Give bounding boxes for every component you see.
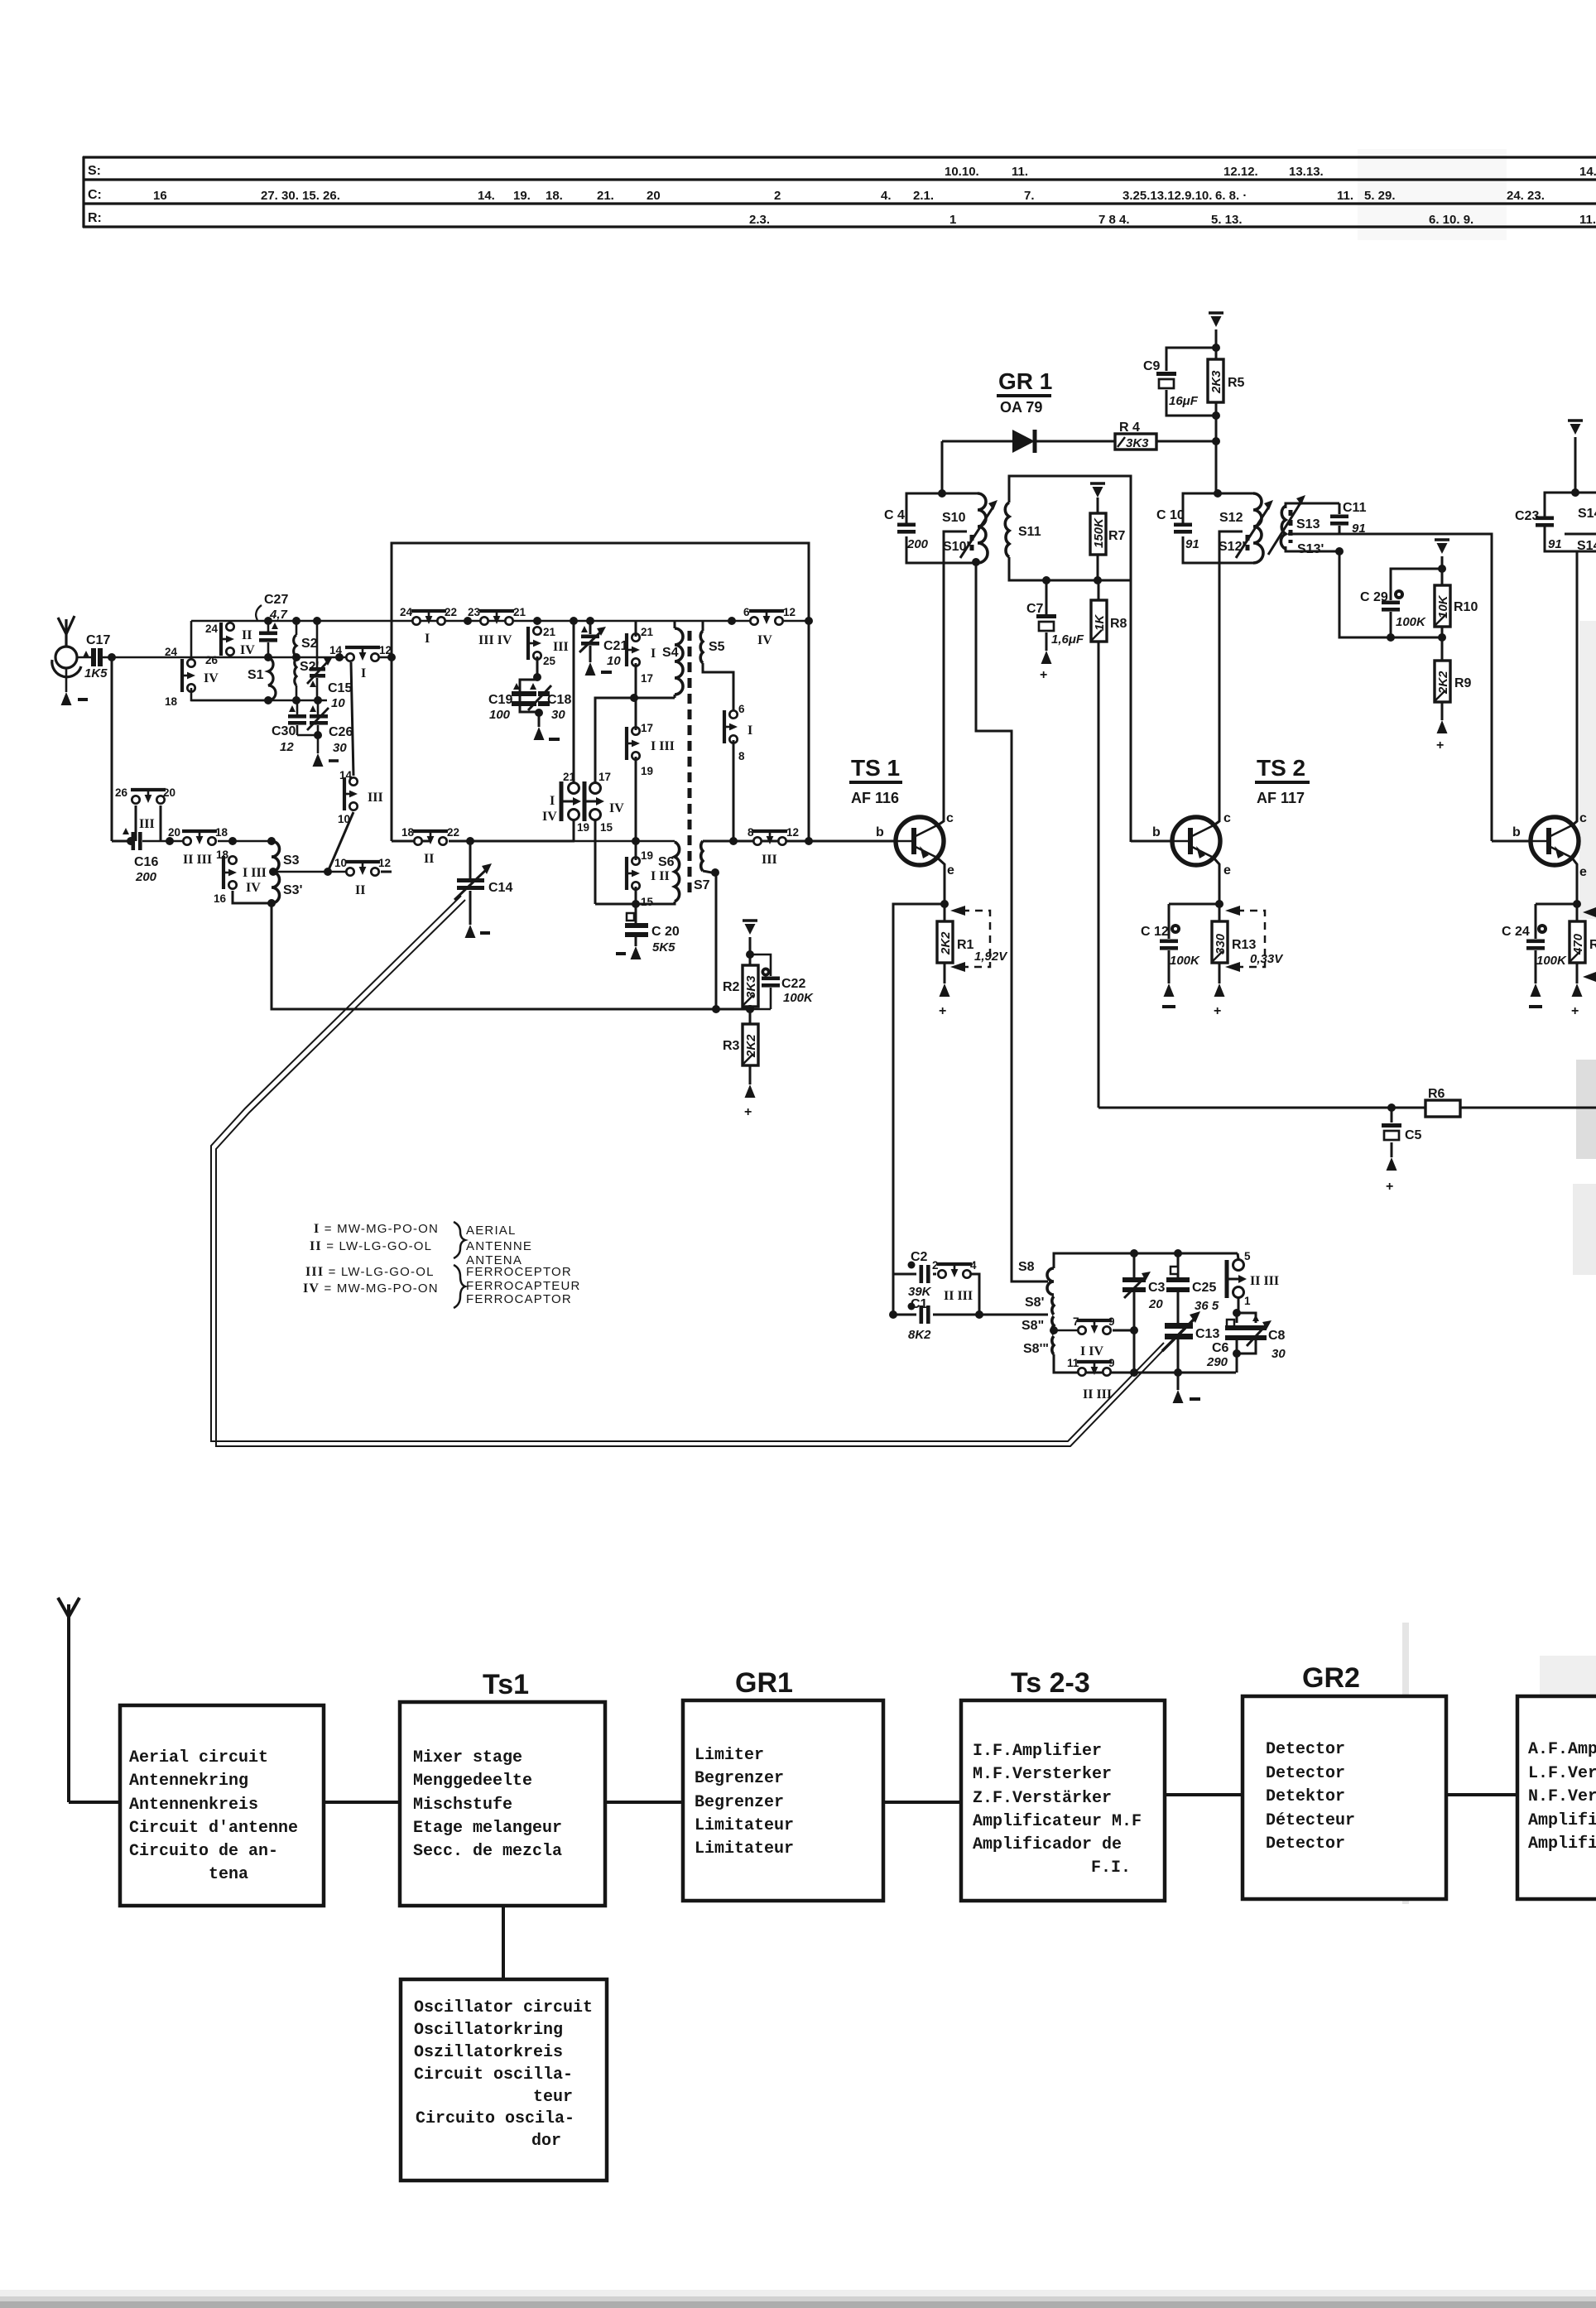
svg-text:OA 79: OA 79 <box>1000 399 1042 416</box>
svg-text:1K5: 1K5 <box>84 666 108 680</box>
svg-text:8: 8 <box>748 826 754 839</box>
svg-text:200: 200 <box>906 537 929 551</box>
svg-text:+: + <box>1214 1004 1221 1018</box>
wire TS1 base rail <box>703 840 897 843</box>
svg-text:21.: 21. <box>597 189 614 203</box>
svg-text:S14: S14 <box>1578 507 1596 521</box>
flow connector <box>883 1801 961 1804</box>
svg-text:18: 18 <box>401 826 415 839</box>
svg-text:Amplifi: Amplifi <box>1528 1811 1596 1830</box>
switch 17-I III-19 <box>627 727 640 760</box>
wire oscillator top rail switches <box>464 617 472 625</box>
scan noise <box>0 2296 1596 2308</box>
tuning gang link (double line) <box>211 896 1167 1446</box>
svg-text:17: 17 <box>598 771 611 783</box>
wire R4 node to C10 tank <box>1215 441 1218 493</box>
wire 4 contact down to C1 line <box>971 1274 979 1315</box>
svg-text:I IV: I IV <box>1080 1344 1103 1358</box>
capacitor C22 <box>762 968 771 977</box>
wire TS1 collector <box>936 818 944 826</box>
svg-text:Etage melangeur: Etage melangeur <box>413 1819 562 1838</box>
svg-text:IV: IV <box>757 633 772 647</box>
svg-text:4.: 4. <box>881 189 892 203</box>
svg-text:100: 100 <box>489 708 511 722</box>
capacitor C26 (trimmer) <box>317 700 320 714</box>
svg-text:Detector: Detector <box>1266 1764 1345 1783</box>
ground below C14 <box>465 925 476 938</box>
switch 21-III-25 <box>528 627 541 660</box>
svg-text:3K3: 3K3 <box>744 975 758 998</box>
svg-text:7.: 7. <box>1024 189 1035 203</box>
resistor R1 <box>937 921 953 963</box>
oscillator coil box <box>1054 1253 1238 1268</box>
wire 16 contact to S3' bottom <box>233 891 272 903</box>
flow box Oscillator circuit <box>401 1979 607 2181</box>
svg-text:I III: I III <box>651 739 675 753</box>
svg-text:Detector: Detector <box>1266 1834 1345 1854</box>
svg-text:200: 200 <box>135 870 157 884</box>
plus terminal below R3 <box>749 1065 752 1084</box>
transistor TS1 AF116 <box>896 817 944 865</box>
capacitor C7 <box>1046 580 1048 614</box>
svg-text:2: 2 <box>932 1259 939 1272</box>
svg-text:S3: S3 <box>283 853 300 868</box>
svg-text:Amplifi: Amplifi <box>1528 1834 1596 1854</box>
supply minus above R7 <box>1090 483 1105 498</box>
svg-text:R3: R3 <box>723 1039 740 1053</box>
svg-text:1: 1 <box>949 213 956 227</box>
svg-text:S8: S8 <box>1018 1260 1035 1274</box>
svg-text:R2: R2 <box>723 980 740 994</box>
svg-text:L.F.Ver: L.F.Ver <box>1528 1764 1596 1783</box>
wire C29 top branch <box>1391 569 1442 600</box>
svg-text:I: I <box>651 647 656 661</box>
svg-text:C15: C15 <box>328 681 352 695</box>
svg-text:21: 21 <box>563 771 576 783</box>
svg-text:S12: S12 <box>1219 511 1243 525</box>
svg-text:Ts1: Ts1 <box>483 1669 529 1700</box>
wire C22 top branch <box>750 954 771 976</box>
capacitor C30 <box>296 700 299 714</box>
svg-text:20: 20 <box>647 189 661 203</box>
wire 17 contact up to S4 bottom <box>595 698 634 783</box>
svg-text:2: 2 <box>774 189 781 203</box>
svg-text:A.F.Amp: A.F.Amp <box>1528 1740 1596 1759</box>
switch 6-I-8 <box>724 710 738 743</box>
svg-text:11.: 11. <box>1012 165 1028 179</box>
svg-text:S1: S1 <box>248 668 264 682</box>
switch 18-I III IV-16 <box>224 856 237 889</box>
svg-text:13.13.: 13.13. <box>1289 165 1324 179</box>
svg-text:C19: C19 <box>488 693 512 707</box>
transformer core S4/S5 dashed <box>688 631 692 892</box>
flow box Mixer stage <box>400 1702 605 1906</box>
flow connector <box>1446 1793 1517 1796</box>
svg-text:dor: dor <box>531 2132 561 2151</box>
coil S11 <box>1005 502 1009 557</box>
svg-text:S3': S3' <box>283 883 302 897</box>
svg-text:Circuit oscilla-: Circuit oscilla- <box>414 2065 573 2084</box>
svg-text:30: 30 <box>333 741 347 755</box>
svg-text:18: 18 <box>165 695 178 708</box>
svg-text:C8: C8 <box>1268 1329 1286 1343</box>
svg-text:26: 26 <box>205 654 219 666</box>
supply minus above R2 <box>743 921 757 935</box>
svg-text:N.F.Ver: N.F.Ver <box>1528 1787 1596 1806</box>
svg-text:C11: C11 <box>1343 501 1367 515</box>
svg-text:4: 4 <box>970 1259 977 1272</box>
flow box IF amplifier <box>961 1700 1165 1901</box>
svg-text:III: III <box>368 791 383 805</box>
wire emitter node to C2/C1 branch <box>893 904 945 1315</box>
svg-text:6. 10. 9.: 6. 10. 9. <box>1429 213 1473 227</box>
svg-text:b: b <box>1152 825 1161 839</box>
wire rail to double switch pole 21 <box>573 621 575 783</box>
svg-text:11: 11 <box>1067 1357 1079 1369</box>
flow connector to oscillator <box>502 1906 505 1981</box>
flow connector <box>324 1801 400 1804</box>
svg-text:100K: 100K <box>783 991 814 1005</box>
ground below C30/C26 <box>297 734 318 737</box>
svg-text:Mischstufe: Mischstufe <box>413 1796 512 1815</box>
supply minus above R5 <box>1209 313 1223 327</box>
C4/S10 IF tank box <box>906 493 978 527</box>
svg-text:I.F.Amplifier: I.F.Amplifier <box>973 1742 1102 1761</box>
wire supply to R5/C9 node <box>1215 329 1218 359</box>
svg-text:100K: 100K <box>1396 615 1426 629</box>
switch 20-II III-18 <box>182 831 217 845</box>
svg-text:14.: 14. <box>1579 165 1596 179</box>
svg-text:Détecteur: Détecteur <box>1266 1811 1355 1830</box>
plus terminal below R9 <box>1441 702 1444 720</box>
svg-text:3K3: 3K3 <box>1126 436 1149 450</box>
oscillator section box <box>392 543 809 841</box>
svg-text:+: + <box>939 1004 946 1018</box>
svg-text:19.: 19. <box>513 189 531 203</box>
svg-text:8K2: 8K2 <box>908 1328 931 1342</box>
svg-text:Circuit d'antenne: Circuit d'antenne <box>129 1819 298 1838</box>
svg-text:C25: C25 <box>1192 1281 1216 1295</box>
flow box Detector <box>1243 1696 1446 1899</box>
wire S7 bottom to bottom rail <box>703 871 716 1009</box>
resistor R8 <box>1098 580 1100 600</box>
ground below tuning block <box>1177 1373 1180 1390</box>
svg-text:III: III <box>553 640 569 654</box>
wire S10' bottom to oscillator S8 coil <box>976 563 1048 1281</box>
resistor R13 <box>1212 921 1228 963</box>
plus terminal below C7 <box>1041 651 1052 664</box>
svg-text:II = LW-LG-GO-OL: II = LW-LG-GO-OL <box>310 1239 432 1253</box>
svg-text:GR 1: GR 1 <box>998 368 1052 394</box>
svg-text:C13: C13 <box>1195 1327 1219 1341</box>
svg-text:7: 7 <box>1073 1315 1079 1328</box>
svg-text:IV: IV <box>240 643 255 657</box>
svg-text:FERROCAPTEUR: FERROCAPTEUR <box>466 1279 581 1293</box>
wire emitter node to C12 <box>1169 903 1219 906</box>
supply minus above R10 <box>1435 540 1449 554</box>
svg-text:AERIAL: AERIAL <box>466 1224 517 1238</box>
svg-text:R1: R1 <box>957 938 974 952</box>
svg-text:c: c <box>946 811 954 825</box>
svg-text:II: II <box>355 883 365 897</box>
switch 24-IV-18 <box>182 659 195 692</box>
svg-text:14: 14 <box>339 769 353 781</box>
svg-text:IV = MW-MG-PO-ON: IV = MW-MG-PO-ON <box>303 1281 439 1296</box>
coil S8 (4 sections) <box>1047 1268 1054 1295</box>
svg-text:27. 30. 15. 26.: 27. 30. 15. 26. <box>261 189 340 203</box>
wire aerial down to C16 <box>111 657 113 841</box>
wire oscillator rail right section <box>675 620 750 623</box>
svg-text:b: b <box>1512 825 1521 839</box>
svg-text:16μF: 16μF <box>1169 394 1199 408</box>
resistor R7 <box>1090 513 1106 555</box>
switch 26-III-20 (bypass above C16) <box>131 790 166 804</box>
coil S5 <box>702 621 704 631</box>
svg-text:C26: C26 <box>329 725 353 739</box>
svg-text:10: 10 <box>334 857 347 869</box>
svg-text:+: + <box>1040 668 1047 682</box>
coil S6 <box>674 841 676 842</box>
svg-text:TS 2: TS 2 <box>1257 755 1305 781</box>
wire 25 contact to C19/C18 <box>536 656 539 680</box>
capacitor C6 <box>1236 1313 1238 1323</box>
svg-text:25: 25 <box>543 655 556 667</box>
svg-text:7 8 4.: 7 8 4. <box>1098 213 1130 227</box>
svg-text:17: 17 <box>641 672 653 685</box>
capacitor C20 <box>635 904 637 923</box>
svg-text:12: 12 <box>786 826 799 839</box>
svg-text:C 4: C 4 <box>884 508 905 522</box>
svg-text:2K3: 2K3 <box>1209 370 1223 394</box>
svg-text:+: + <box>1571 1004 1579 1018</box>
svg-text:C18: C18 <box>547 693 571 707</box>
switch 7-I IV-9 <box>1054 1330 1079 1332</box>
resistor R3 <box>743 1024 758 1065</box>
switch 8-III-12 (base line) <box>752 831 787 845</box>
wire S3 tap to switch 10-II-12 <box>273 871 348 873</box>
diode GR1 OA79 <box>942 440 1012 443</box>
svg-text:II III: II III <box>183 853 212 867</box>
svg-text:18.: 18. <box>546 189 563 203</box>
wire TS2 collector <box>1213 818 1219 826</box>
switch 21-I-17 (S4) <box>627 633 640 666</box>
svg-text:Detektor: Detektor <box>1266 1787 1345 1806</box>
svg-text:II III: II III <box>944 1289 973 1303</box>
svg-text:21: 21 <box>513 606 526 618</box>
svg-text:Limitateur: Limitateur <box>695 1816 794 1835</box>
flow box AF amplifier (cut) <box>1517 1696 1596 1899</box>
variable capacitor C14 (tuning) <box>469 841 472 878</box>
resistor R16 <box>1570 921 1585 963</box>
svg-text:S11: S11 <box>1018 525 1041 539</box>
svg-text:17: 17 <box>641 722 653 734</box>
svg-text:c: c <box>1579 811 1587 825</box>
svg-text:II: II <box>242 628 252 642</box>
svg-text:24. 23.: 24. 23. <box>1507 189 1545 203</box>
svg-text:36 5: 36 5 <box>1195 1299 1219 1313</box>
flow connector <box>1165 1793 1243 1796</box>
S13/C11 IF tank box <box>1286 503 1339 508</box>
svg-text:S8": S8" <box>1022 1319 1044 1333</box>
svg-text:C5: C5 <box>1405 1128 1422 1142</box>
svg-text:Oscillatorkring: Oscillatorkring <box>414 2021 563 2040</box>
svg-text:23: 23 <box>468 606 481 618</box>
svg-text:R13: R13 <box>1232 938 1256 952</box>
svg-text:Detector: Detector <box>1266 1740 1345 1759</box>
svg-text:R5: R5 <box>1228 376 1245 390</box>
svg-text:Limitateur: Limitateur <box>695 1839 794 1858</box>
svg-text:26: 26 <box>115 786 128 799</box>
svg-text:8: 8 <box>738 750 745 762</box>
svg-text:9: 9 <box>1108 1357 1115 1369</box>
svg-text:C6: C6 <box>1212 1341 1229 1355</box>
svg-text:Amplificateur M.F: Amplificateur M.F <box>973 1812 1142 1831</box>
svg-text:Limiter: Limiter <box>695 1746 764 1765</box>
svg-text:12: 12 <box>378 857 391 869</box>
svg-text:S8'": S8'" <box>1023 1342 1049 1356</box>
wire TS1 emitter to R1 node <box>936 857 945 921</box>
C10/S12 IF tank box <box>1183 493 1253 527</box>
svg-text:C30: C30 <box>272 724 296 738</box>
svg-text:6: 6 <box>738 703 745 715</box>
svg-text:24: 24 <box>205 623 219 635</box>
svg-text:I: I <box>361 666 366 680</box>
capacitor C3 (trimmer) <box>1130 1249 1138 1257</box>
svg-text:6. 8. ·: 6. 8. · <box>1215 189 1247 203</box>
svg-text:+: + <box>1386 1180 1393 1194</box>
svg-text:30: 30 <box>551 708 565 722</box>
svg-text:e: e <box>947 863 954 878</box>
svg-text:C 12: C 12 <box>1141 925 1169 939</box>
resistor R5 <box>1208 359 1223 402</box>
capacitor C18 (trimmer) <box>538 691 550 696</box>
svg-text:22: 22 <box>447 826 459 839</box>
wire tank bottom to TS3 collector <box>1576 551 1579 818</box>
voltage annotation 1,92V <box>962 911 990 967</box>
flow diagram antenna <box>58 1598 120 1802</box>
svg-text:GR2: GR2 <box>1302 1662 1360 1694</box>
svg-text:5. 13.: 5. 13. <box>1211 213 1243 227</box>
flow box Limiter <box>683 1700 883 1901</box>
svg-text:Z.F.Verstärker: Z.F.Verstärker <box>973 1789 1112 1808</box>
svg-text:10: 10 <box>607 654 621 668</box>
svg-text:C 10: C 10 <box>1156 508 1185 522</box>
transistor TS2 AF117 <box>1172 817 1220 865</box>
ground below C20 <box>631 946 642 959</box>
svg-text:M.F.Versterker: M.F.Versterker <box>973 1765 1112 1784</box>
wire S6 bottom rail <box>595 902 675 904</box>
S10 tap inner box <box>944 531 967 563</box>
ground below C19/C18 <box>538 713 541 727</box>
svg-text:20: 20 <box>163 786 175 799</box>
svg-text:II III: II III <box>1083 1387 1112 1402</box>
wire C9 bottom <box>1166 390 1216 416</box>
wire S12 tap down to TS2 collector <box>1219 563 1221 818</box>
svg-text:c: c <box>1223 811 1231 825</box>
svg-text:C 24: C 24 <box>1502 925 1530 939</box>
svg-text:Mixer stage: Mixer stage <box>413 1748 522 1767</box>
svg-text:S4: S4 <box>662 646 679 660</box>
svg-text:I: I <box>550 794 555 808</box>
plus terminal below C5 <box>1387 1157 1397 1171</box>
wire S1/S2 bottom rail <box>191 700 327 702</box>
svg-text:5K5: 5K5 <box>652 940 675 954</box>
svg-text:100K: 100K <box>1170 954 1200 968</box>
svg-text:24: 24 <box>165 646 178 658</box>
svg-text:ANTENNE: ANTENNE <box>466 1239 532 1253</box>
wire 1 contact to C6/C8 <box>1238 1298 1240 1315</box>
switch 11-II III-9 <box>1077 1362 1112 1376</box>
svg-text:1,6μF: 1,6μF <box>1051 632 1084 647</box>
svg-text:FERROCAPTOR: FERROCAPTOR <box>466 1292 572 1306</box>
svg-text:II III: II III <box>1250 1274 1279 1288</box>
svg-text:2.1.: 2.1. <box>913 189 934 203</box>
svg-text:19: 19 <box>641 765 653 777</box>
svg-text:GR1: GR1 <box>735 1667 793 1699</box>
svg-text:15: 15 <box>600 821 613 834</box>
wire 10 contact diagonal to S3 tap <box>328 812 353 872</box>
capacitor C19 <box>520 680 537 712</box>
svg-text:Antennenkreis: Antennenkreis <box>129 1796 258 1815</box>
flow connector <box>605 1801 683 1804</box>
transistor TS3 (right edge) <box>1531 817 1579 865</box>
svg-text:19: 19 <box>577 821 589 834</box>
svg-text:III: III <box>762 853 777 867</box>
svg-text:22: 22 <box>445 606 457 618</box>
svg-text:R7: R7 <box>1108 529 1126 543</box>
svg-text:S13: S13 <box>1296 517 1320 531</box>
resistor R9 <box>1435 661 1450 702</box>
svg-text:Menggedeelte: Menggedeelte <box>413 1772 532 1791</box>
svg-text:S7: S7 <box>694 878 710 892</box>
svg-text:2K2: 2K2 <box>939 931 953 955</box>
wire TS3 emitter to R16 node <box>1571 857 1577 921</box>
wire diode node down to C4/S10 tank <box>941 441 944 493</box>
svg-text:S:: S: <box>88 164 101 178</box>
switch 18-II-22 <box>413 831 448 845</box>
svg-text:I: I <box>748 724 752 738</box>
coil S7 <box>701 841 703 871</box>
switch 24-II IV-26 <box>221 623 234 656</box>
switch 2-II III-4 <box>937 1264 972 1278</box>
svg-text:100K: 100K <box>1536 954 1567 968</box>
table S/C/R rows <box>83 156 1596 228</box>
svg-text:I: I <box>425 632 430 646</box>
wire R2/C22 bottom to rail <box>749 1007 752 1024</box>
resistor R2 <box>743 965 758 1007</box>
svg-text:12: 12 <box>280 740 294 754</box>
svg-text:C:: C: <box>88 188 102 202</box>
svg-text:290: 290 <box>1206 1355 1228 1369</box>
svg-text:FERROCEPTOR: FERROCEPTOR <box>466 1265 572 1279</box>
switch 10-II-12 <box>345 862 380 876</box>
aerial antenna symbol <box>52 616 81 677</box>
svg-text:Amplificador de: Amplificador de <box>973 1835 1122 1854</box>
svg-text:Circuito oscila-: Circuito oscila- <box>416 2109 574 2128</box>
svg-text:C9: C9 <box>1143 359 1161 373</box>
svg-text:24: 24 <box>400 606 413 618</box>
voltage annotation arrows (cut at edge) <box>1583 907 1596 917</box>
svg-text:Aerial circuit: Aerial circuit <box>129 1748 268 1767</box>
svg-text:18: 18 <box>216 849 229 861</box>
svg-text:C22: C22 <box>781 977 805 991</box>
svg-text:10.10.: 10.10. <box>945 165 979 179</box>
coil S2 <box>292 617 300 625</box>
svg-text:19: 19 <box>641 849 653 862</box>
svg-text:18: 18 <box>215 826 228 839</box>
wire TS2 base from S11 secondary <box>1131 840 1173 843</box>
svg-text:S5: S5 <box>709 640 725 654</box>
